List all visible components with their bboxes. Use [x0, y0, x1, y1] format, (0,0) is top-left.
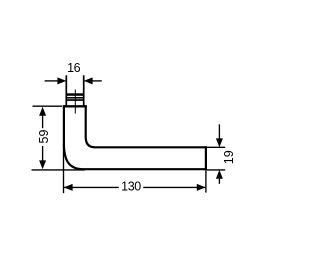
dim 59 top extension line [33, 105, 63, 107]
dim 19 top leader [218, 124, 220, 141]
dim 130 right extension line [205, 171, 207, 193]
shoulder (top of grip) [63, 105, 87, 107]
dim 19 bottom extension line [207, 169, 226, 171]
svg-text:16: 16 [67, 61, 80, 75]
grip left edge, outer curve, lever bottom edge [64, 106, 206, 169]
svg-text:130: 130 [121, 179, 141, 193]
dim 59 bottom arrow [39, 160, 46, 169]
dim 130 left arrow [64, 184, 73, 191]
collar bar 1 [66, 93, 85, 96]
dim 130 line right segment [143, 186, 205, 188]
svg-text:19: 19 [222, 150, 236, 164]
svg-text:59: 59 [37, 130, 51, 144]
collar bar 3 [66, 99, 85, 101]
dim 59 line lower segment [42, 146, 44, 163]
dim 130 line left segment [64, 186, 119, 188]
dim 130 right arrow [197, 184, 206, 191]
dim 130 left extension line [63, 144, 65, 193]
collar bar 2 [66, 97, 85, 99]
dim 16 left leader [45, 80, 60, 82]
dim 59 top arrow [39, 107, 46, 116]
grip right edge, inner curve, lever top edge [86, 106, 206, 147]
dim 16 right arrow [84, 77, 93, 84]
handle neck right edge [83, 75, 85, 105]
handle neck left edge [65, 75, 67, 105]
dim 16 right leader [90, 80, 102, 82]
dim 19 top arrow [216, 138, 223, 147]
dim 19 bottom arrow [216, 170, 223, 179]
dim 59 line upper segment [42, 112, 44, 128]
centerline [74, 90, 76, 114]
dim 16 left arrow [57, 77, 66, 84]
lever end [205, 146, 207, 170]
dim 19 top extension line [207, 146, 226, 148]
dim 19 bottom leader [218, 176, 220, 184]
dim 59 bottom extension line [32, 169, 86, 171]
